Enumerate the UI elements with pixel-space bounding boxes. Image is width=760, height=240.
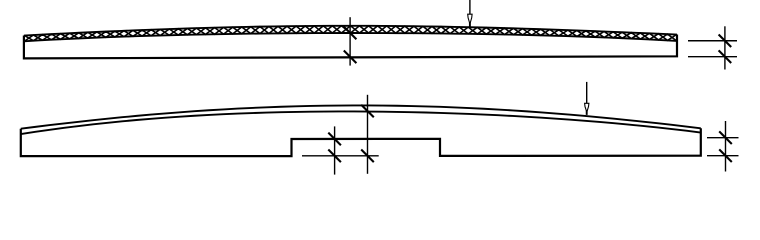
right dimension extension line lower (top figure) [688, 56, 737, 58]
tick lower right (bottom figure) [719, 149, 732, 162]
right dimension vertical line (bottom figure) [725, 121, 727, 172]
tick upper right (bottom figure) [719, 131, 732, 144]
right dimension extension line upper (bottom figure) [707, 137, 739, 139]
second camber curve (bottom figure) [21, 111, 701, 134]
screed layer bottom curve [24, 33, 677, 41]
right dimension vertical line (top figure) [724, 26, 726, 69]
centre dimension vertical line B [367, 95, 369, 174]
notch dimension vertical line A [334, 126, 336, 174]
slab outline with bearing notch (bottom figure) [21, 128, 701, 156]
cross hatch zigzag 1 [24, 26, 676, 41]
tick at slab bottom, centre [344, 51, 357, 64]
slab outline (top figure) [24, 35, 677, 59]
tick B at camber curve [361, 105, 374, 118]
tick A at bottom level [328, 150, 341, 163]
screed layer top curve (crowned surface) [24, 26, 677, 36]
centre dimension line (top figure) [349, 17, 351, 65]
cambered top surface (bottom figure) [21, 105, 701, 128]
down arrow (bottom figure) [585, 82, 589, 115]
bottom reference line through notch [302, 155, 379, 157]
down arrow (top figure) [468, 0, 472, 27]
cross hatch zigzag 2 [24, 26, 676, 41]
tick at layer bottom, centre [344, 27, 357, 40]
tick lower right (top figure) [719, 50, 732, 63]
right dimension extension line lower (bottom figure) [707, 155, 739, 157]
right dimension extension line upper (top figure) [688, 40, 737, 42]
tick A at notch top [328, 133, 341, 146]
tick upper right (top figure) [719, 35, 732, 48]
tick B at bottom level [361, 150, 374, 163]
